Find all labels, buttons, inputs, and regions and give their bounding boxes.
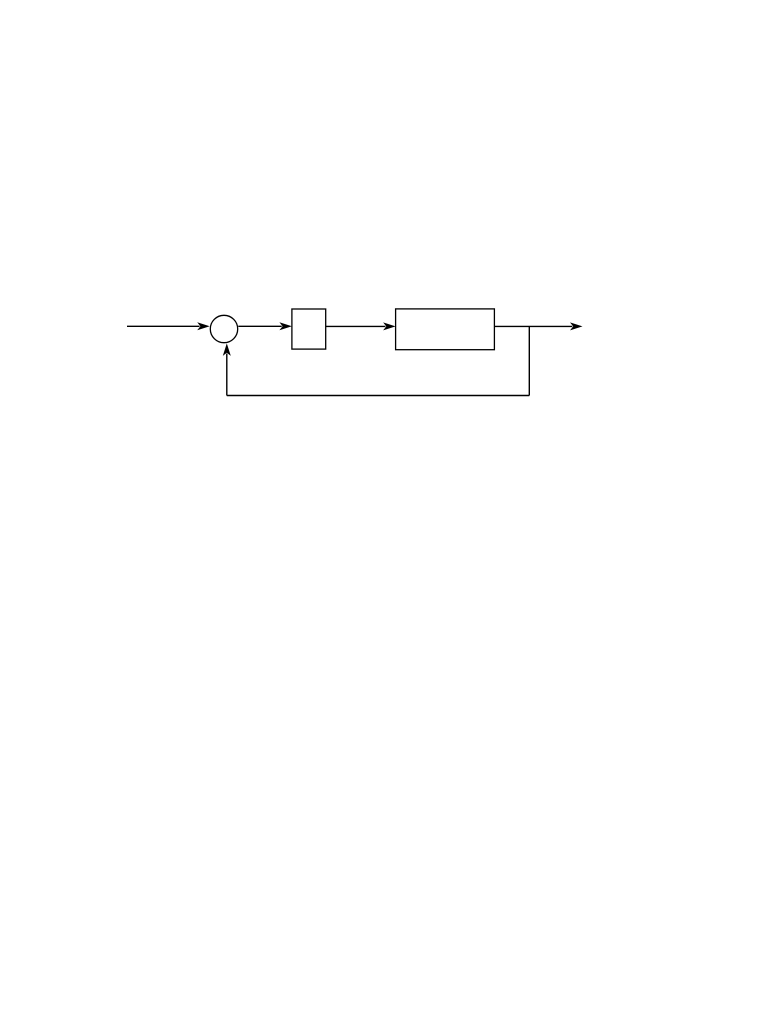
arrowhead: into controller block [279, 322, 292, 330]
summing junction (circle) [210, 315, 237, 342]
arrowhead: feedback into summing junction bottom [223, 343, 231, 356]
wire: output line [494, 325, 572, 327]
wire: input signal line [127, 325, 200, 327]
wire: feedback vertical rise to summing junction [226, 354, 228, 396]
arrowhead: output [570, 322, 583, 330]
wire: controller to plant block [326, 325, 386, 327]
plant block (large box) [396, 309, 495, 350]
arrowhead: input into summing junction [197, 322, 210, 330]
wire: summing junction to controller block [238, 325, 281, 327]
wire: feedback vertical drop from output line [528, 326, 530, 395]
arrowhead: into plant block [383, 322, 396, 330]
controller block (small box) [292, 309, 326, 349]
wire: feedback bottom horizontal line [227, 395, 530, 397]
